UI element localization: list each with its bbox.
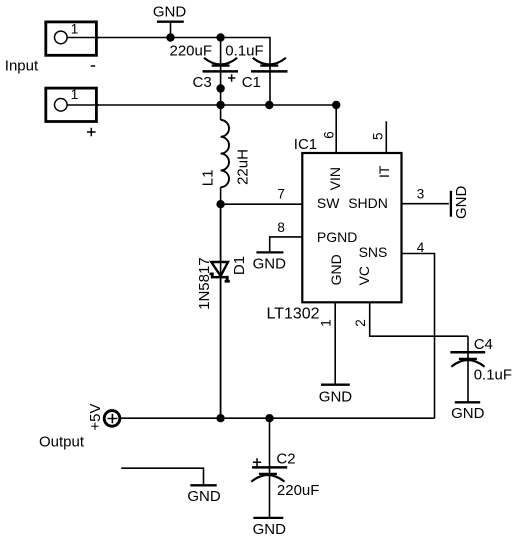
svg-text:1: 1 [71, 87, 79, 102]
svg-text:GND: GND [253, 255, 287, 272]
svg-text:220uF: 220uF [277, 482, 320, 499]
svg-text:GND: GND [451, 405, 485, 422]
svg-text:SHDN: SHDN [348, 195, 388, 211]
svg-text:GND: GND [153, 4, 187, 21]
svg-text:1: 1 [318, 319, 333, 327]
svg-text:6: 6 [321, 131, 336, 139]
svg-text:Output: Output [39, 433, 85, 450]
svg-text:4: 4 [417, 240, 425, 255]
svg-text:C2: C2 [276, 450, 295, 467]
svg-text:220uF: 220uF [170, 42, 213, 59]
svg-text:0.1uF: 0.1uF [474, 366, 512, 383]
svg-text:D1: D1 [231, 256, 248, 275]
svg-text:IC1: IC1 [294, 136, 317, 153]
svg-text:5: 5 [371, 132, 386, 140]
svg-text:L1: L1 [200, 170, 217, 187]
svg-text:IT: IT [376, 165, 392, 178]
svg-text:22uH: 22uH [234, 149, 251, 185]
svg-text:SNS: SNS [359, 244, 388, 260]
svg-text:SW: SW [317, 195, 340, 211]
svg-text:+5V: +5V [87, 403, 104, 430]
svg-text:GND: GND [187, 488, 221, 505]
svg-text:VIN: VIN [327, 167, 343, 190]
svg-text:VC: VC [356, 266, 372, 285]
svg-text:C3: C3 [193, 74, 212, 91]
svg-text:GND: GND [328, 254, 344, 285]
svg-text:7: 7 [277, 187, 285, 202]
svg-text:GND: GND [319, 389, 353, 406]
svg-text:1: 1 [71, 22, 79, 37]
svg-text:PGND: PGND [317, 229, 357, 245]
svg-text:0.1uF: 0.1uF [225, 42, 263, 59]
svg-text:3: 3 [417, 187, 425, 202]
svg-text:Input: Input [5, 57, 39, 74]
svg-text:LT1302: LT1302 [267, 305, 320, 322]
svg-text:C4: C4 [474, 336, 493, 353]
svg-text:C1: C1 [242, 74, 261, 91]
svg-text:GND: GND [453, 186, 470, 220]
svg-text:8: 8 [277, 220, 285, 235]
svg-text:GND: GND [253, 521, 287, 538]
svg-text:1N5817: 1N5817 [196, 257, 213, 310]
svg-text:2: 2 [353, 319, 368, 327]
